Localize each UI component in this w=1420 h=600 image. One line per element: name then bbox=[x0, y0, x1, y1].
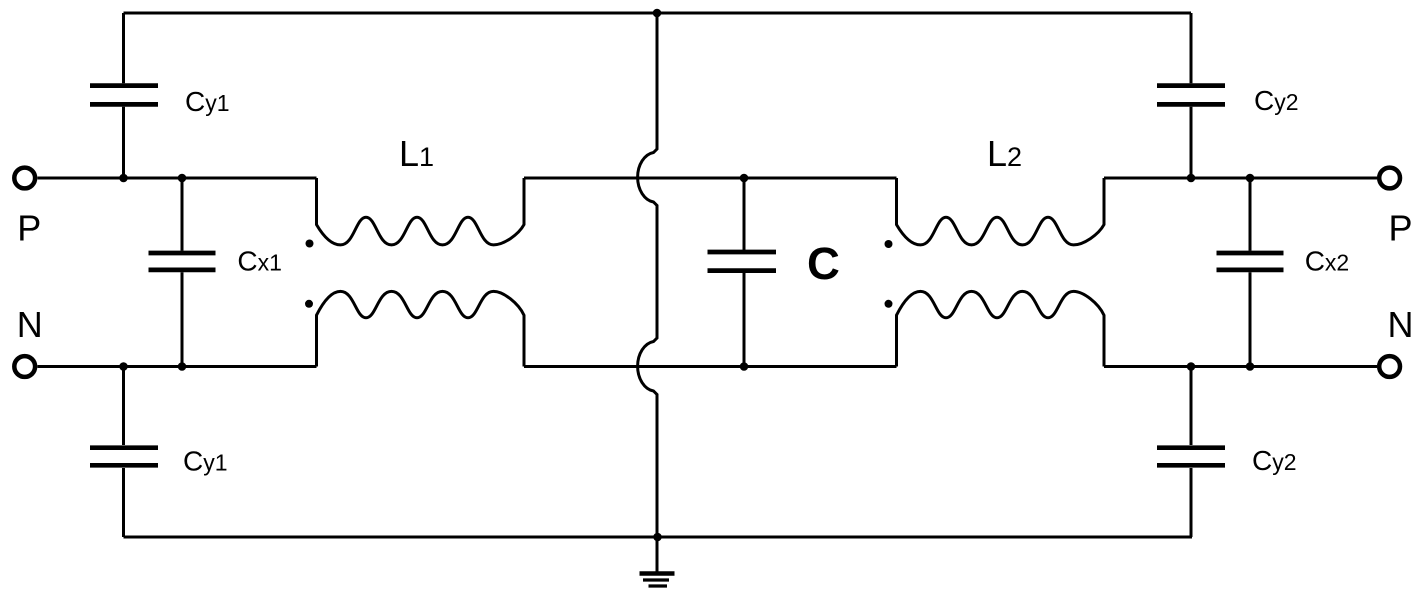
svg-text:Cy1: Cy1 bbox=[183, 446, 228, 477]
wire right rail upper (top rail to Cy2 top) bbox=[1190, 13, 1193, 83]
capacitor Cy2 (bottom) bbox=[1157, 448, 1225, 466]
capacitor C bbox=[708, 252, 777, 271]
junction N wire / Cx1 bbox=[178, 362, 187, 371]
wire P left segment bbox=[37, 177, 316, 180]
wire P middle segment bbox=[524, 177, 897, 180]
svg-text:L2: L2 bbox=[987, 133, 1022, 174]
junction N wire / capacitor C bbox=[740, 362, 749, 371]
wire right rail bottom (Cy2 bottom to bottom rail) bbox=[1190, 468, 1193, 537]
capacitor Cy1 (top) bbox=[90, 86, 158, 105]
capacitor Cx1 bbox=[149, 253, 216, 270]
junction P wire / capacitor C bbox=[740, 174, 749, 183]
inductor L1 phase dot top bbox=[306, 240, 314, 248]
wire left rail lower (N wire to Cy1 bottom) bbox=[122, 367, 125, 446]
wire N left segment bbox=[37, 365, 316, 368]
wire bottom rail bbox=[124, 536, 1193, 539]
junction P wire / Cx2 bbox=[1246, 174, 1255, 183]
svg-text:Cy2: Cy2 bbox=[1252, 445, 1297, 476]
svg-text:P: P bbox=[1389, 208, 1413, 249]
junction N wire / left rail bbox=[119, 362, 128, 371]
wire left rail (Cy1 top to P wire) bbox=[122, 107, 125, 178]
junction P wire / Cx1 bbox=[178, 174, 187, 183]
capacitor Cy2 (top) bbox=[1157, 86, 1225, 105]
wire left rail upper (top rail to Cy1 top) bbox=[122, 13, 125, 83]
svg-text:N: N bbox=[17, 304, 43, 345]
wire left rail bottom (Cy1 bottom to bottom rail) bbox=[122, 468, 125, 537]
inductor L2 top winding bbox=[897, 178, 1105, 245]
capacitor Cx2 bbox=[1217, 253, 1284, 270]
wire right rail lower (N wire to Cy2 bottom) bbox=[1190, 367, 1193, 446]
inductor L2 phase dot top bbox=[885, 240, 893, 248]
wire ground lead bbox=[656, 537, 659, 572]
svg-text:L1: L1 bbox=[399, 133, 434, 174]
wire P right segment bbox=[1104, 177, 1377, 180]
svg-text:Cy2: Cy2 bbox=[1254, 85, 1299, 116]
svg-text:P: P bbox=[17, 208, 41, 249]
svg-text:Cx2: Cx2 bbox=[1305, 245, 1350, 276]
wire center vertical with crossover hops bbox=[638, 13, 657, 537]
wire Cx2 branch bbox=[1249, 178, 1252, 367]
wire right rail (Cy2 top to P wire) bbox=[1190, 107, 1193, 178]
terminal N right bbox=[1379, 356, 1400, 377]
wire N middle segment bbox=[524, 365, 897, 368]
junction N wire / Cx2 bbox=[1246, 362, 1255, 371]
inductor L1 top winding bbox=[317, 178, 525, 245]
inductor L1 phase dot bottom bbox=[305, 300, 313, 308]
wire N right segment bbox=[1104, 365, 1377, 368]
inductor L2 bottom winding bbox=[897, 291, 1105, 366]
junction P wire / right rail bbox=[1187, 174, 1196, 183]
junction N wire / right rail bbox=[1187, 362, 1196, 371]
inductor L2 phase dot bottom bbox=[885, 300, 893, 308]
terminal P right bbox=[1379, 168, 1400, 189]
capacitor Cy1 (bottom) bbox=[90, 448, 158, 466]
svg-text:Cx1: Cx1 bbox=[237, 245, 282, 276]
inductor L1 bottom winding bbox=[317, 291, 525, 366]
svg-text:Cy1: Cy1 bbox=[185, 86, 230, 117]
ground bbox=[640, 574, 675, 587]
junction bottom rail / center vertical bbox=[653, 533, 662, 542]
wire capacitor C branch bbox=[743, 178, 746, 367]
svg-text:C: C bbox=[807, 238, 840, 289]
wire top rail bbox=[124, 12, 1192, 15]
terminal P left bbox=[14, 168, 35, 189]
junction P wire / left rail bbox=[119, 174, 128, 183]
junction top rail / center vertical bbox=[653, 9, 662, 18]
terminal N left bbox=[14, 356, 35, 377]
wire Cx1 branch bbox=[181, 178, 184, 367]
svg-text:N: N bbox=[1388, 304, 1414, 345]
